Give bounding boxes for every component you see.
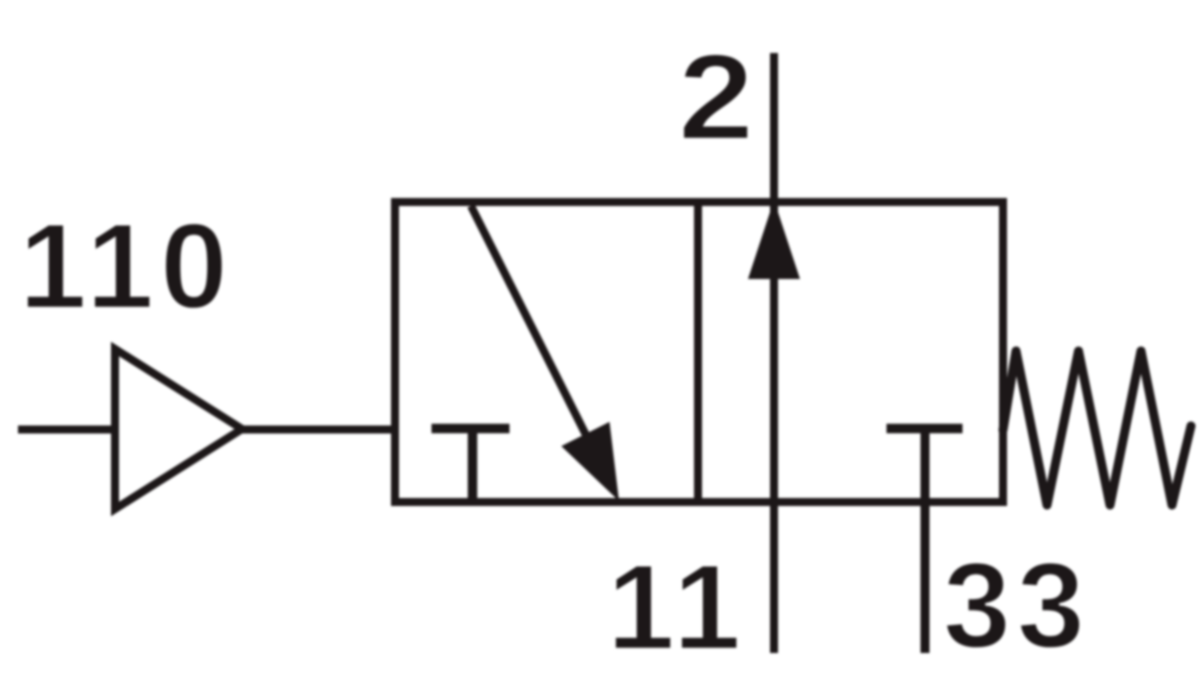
svg-text:110: 110: [19, 198, 234, 334]
svg-text:2: 2: [678, 29, 754, 165]
valve body box: [395, 202, 1003, 502]
flow arrow up (port 1 to 2): [748, 200, 800, 279]
blocked port symbol right (crossbar): [887, 424, 963, 434]
blocked port symbol left (crossbar): [432, 424, 510, 434]
wire: pilot line to valve body: [238, 426, 395, 434]
wire: port 2 to port 1 vertical line: [770, 53, 778, 653]
valve position divider: [694, 202, 702, 502]
pilot triangle actuator: [115, 349, 242, 509]
wire: port 3 stem: [921, 428, 930, 653]
switched path diagonal line: [471, 206, 592, 447]
svg-text:11: 11: [607, 539, 746, 675]
return spring: [1003, 351, 1191, 505]
wire: pilot input line left: [18, 426, 115, 434]
switched path arrowhead: [561, 422, 619, 501]
svg-text:33: 33: [943, 537, 1091, 673]
blocked port symbol left (stem): [468, 428, 478, 502]
